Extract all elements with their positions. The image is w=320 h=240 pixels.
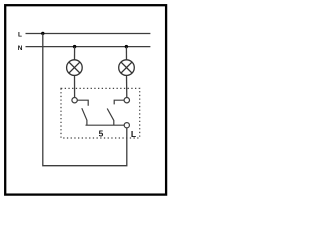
svg-text:L: L <box>18 32 22 39</box>
svg-text:L: L <box>131 129 136 139</box>
svg-text:5: 5 <box>99 129 104 139</box>
svg-text:N: N <box>18 45 23 52</box>
